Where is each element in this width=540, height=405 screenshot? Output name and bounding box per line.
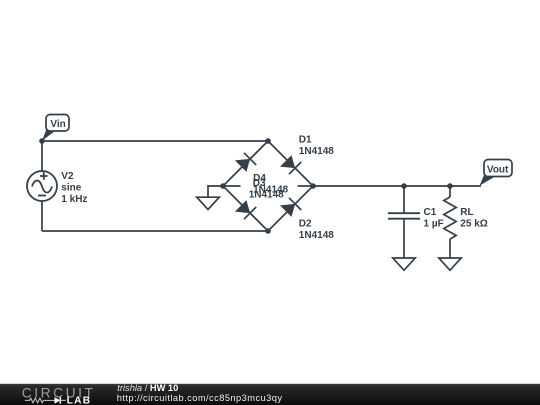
svg-text:trishla / HW 10: trishla / HW 10 — [117, 383, 178, 393]
node dot bridge left — [220, 183, 226, 189]
node dot bridge top — [265, 138, 271, 144]
svg-text:http://circuitlab.com/cc85np3m: http://circuitlab.com/cc85np3mcu3qy — [117, 393, 283, 403]
svg-text:1N4148: 1N4148 — [249, 189, 284, 200]
wire C1 bottom plate to ground — [403, 219, 405, 259]
node dot RL tap — [447, 183, 453, 189]
svg-text:V2: V2 — [61, 171, 74, 182]
svg-text:D3: D3 — [253, 178, 266, 189]
wire bridge left corner to ground stub — [208, 186, 223, 197]
svg-text:1 µF: 1 µF — [424, 218, 444, 229]
Vin flag — [42, 115, 69, 141]
resistor RL zigzag — [444, 197, 456, 239]
label V2 — [61, 171, 87, 205]
logo diode symbol — [55, 397, 61, 404]
svg-text:1N4148: 1N4148 — [299, 146, 334, 157]
svg-text:25 kΩ: 25 kΩ — [460, 218, 487, 229]
ground below C1 — [393, 258, 415, 270]
label RL — [460, 207, 487, 229]
Vout flag — [480, 160, 513, 186]
capacitor C1 plates — [388, 213, 420, 219]
node dot C1 tap — [401, 183, 407, 189]
label C1 — [424, 207, 444, 229]
wire RL bottom to ground — [449, 239, 451, 258]
svg-text:sine: sine — [61, 183, 81, 194]
logo squiggle resistor — [25, 398, 55, 403]
footer bar — [0, 384, 540, 405]
wire stub left of right corner — [298, 185, 314, 187]
ground below RL — [439, 258, 461, 270]
svg-text:1N4148: 1N4148 — [299, 230, 334, 241]
svg-text:Vout: Vout — [487, 164, 509, 175]
svg-text:RL: RL — [460, 207, 473, 218]
svg-text:D1: D1 — [299, 134, 312, 145]
bridge edge bottom-right — [268, 186, 313, 231]
diode top-left (D4) — [235, 153, 256, 172]
label D4 (center) — [253, 173, 288, 195]
diode bottom-left (D3) — [235, 200, 256, 219]
wire stub right of left corner — [223, 185, 241, 187]
svg-text:Vin: Vin — [50, 119, 65, 130]
svg-text:D2: D2 — [299, 219, 312, 230]
wire bridge right corner to Vout — [313, 185, 481, 187]
label D1 — [299, 134, 334, 157]
diode D2 bottom-right — [280, 198, 301, 217]
node dot bridge bottom — [265, 228, 271, 234]
wire bottom rail: source to bridge bottom — [42, 230, 268, 232]
bridge edge top-left — [223, 141, 268, 186]
svg-text:C1: C1 — [424, 207, 437, 218]
voltage source V2 body — [27, 171, 57, 201]
diode D1 top-right — [280, 155, 301, 174]
ground at bridge left corner — [197, 197, 220, 209]
wire left vertical: node to source top — [41, 141, 43, 171]
wire top: Vin node to bridge top — [42, 140, 268, 142]
svg-text:LAB: LAB — [67, 396, 92, 405]
bridge edge bottom-left — [223, 186, 268, 231]
node dot bridge right — [310, 183, 316, 189]
label D3 (center) — [249, 178, 284, 200]
wire RL branch down — [449, 186, 451, 197]
wire C1 branch down — [403, 186, 405, 213]
node dot Vin — [39, 138, 45, 144]
svg-text:1 kHz: 1 kHz — [61, 194, 87, 205]
wire source bottom to bottom rail — [41, 201, 43, 231]
bridge edge top-right — [268, 141, 313, 186]
label D2 — [299, 219, 334, 242]
